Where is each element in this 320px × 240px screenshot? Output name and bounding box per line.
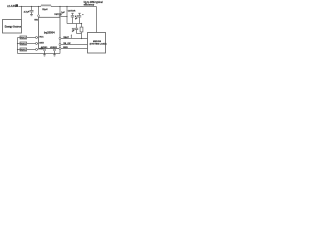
svg-text:ROK1: ROK1 <box>21 44 26 46</box>
svg-text:Energy Source: Energy Source <box>5 27 22 29</box>
svg-text:CSTOR: CSTOR <box>68 11 76 13</box>
svg-text:VIN: VIN <box>34 19 38 21</box>
svg-text:ROC1: ROC1 <box>21 38 26 40</box>
svg-text:VB_OK: VB_OK <box>63 43 71 45</box>
svg-text:22µH: 22µH <box>42 9 48 11</box>
svg-text:4.7µF: 4.7µF <box>24 10 30 13</box>
svg-text:(SYSTEM LOAD): (SYSTEM LOAD) <box>90 43 107 46</box>
svg-text:ROV1: ROV1 <box>21 50 26 52</box>
svg-text:GND: GND <box>63 47 68 49</box>
svg-text:bq25504: bq25504 <box>44 30 55 34</box>
svg-text:OKH: OKH <box>39 42 44 44</box>
svg-text:VOC: VOC <box>39 36 44 38</box>
svg-text:OVP: OVP <box>39 48 44 50</box>
svg-text:efficiency: efficiency <box>84 4 95 6</box>
svg-text:VBAT: VBAT <box>63 36 69 39</box>
svg-text:2.1-5.5V: 2.1-5.5V <box>7 6 16 8</box>
svg-text:AVSS2: AVSS2 <box>50 46 58 49</box>
